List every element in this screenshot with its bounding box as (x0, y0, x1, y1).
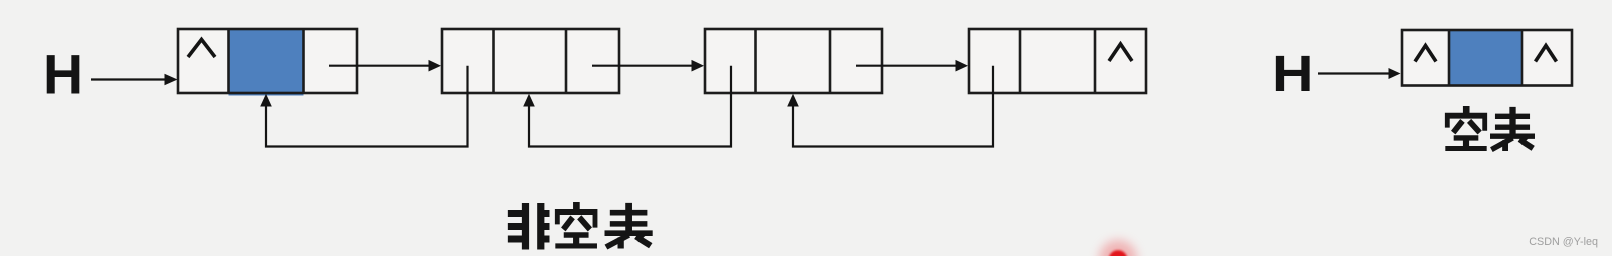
svg-text:H: H (43, 44, 83, 106)
label 空表 (empty list), drawn glyphs (1445, 106, 1535, 151)
laser pointer red dot (1099, 240, 1137, 256)
wire next pointer node2 to node3 (592, 60, 704, 72)
glyph BIAO (605, 203, 653, 249)
node 3 (705, 29, 882, 93)
glyph KONG (555, 202, 598, 249)
node 2 (442, 29, 619, 93)
wire prior pointer node2 back to node1 (260, 66, 467, 147)
wire prior pointer node3 back to node2 (523, 66, 731, 147)
glyph KONG (1445, 106, 1487, 151)
svg-text:CSDN @Y-leq: CSDN @Y-leq (1529, 236, 1598, 248)
wire arrow H to node1 (91, 74, 178, 86)
wire next pointer node3 to node4 (856, 60, 968, 72)
glyph BIAO (1490, 107, 1535, 151)
wire next pointer node1 to node2 (329, 60, 441, 72)
wire prior pointer node4 back to node3 (787, 66, 993, 147)
node empty-list (head node only) (1402, 30, 1572, 86)
svg-text:H: H (1272, 45, 1314, 102)
node 1 (head node) (178, 29, 357, 96)
wire arrow H to empty node (1318, 68, 1401, 79)
label 非空表 (non-empty list), drawn glyphs (508, 202, 653, 250)
glyph FEI (508, 203, 550, 250)
node 4 (tail node) (969, 29, 1146, 93)
